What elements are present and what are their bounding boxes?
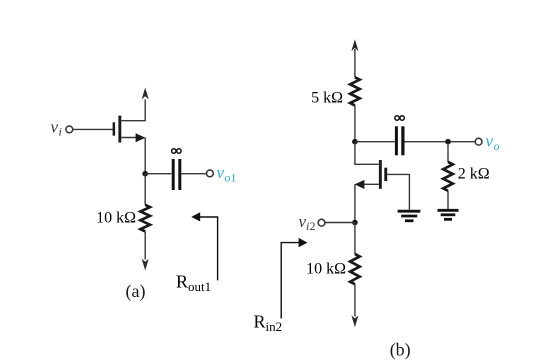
input terminal vi [66,126,73,133]
capacitor C2 [395,126,405,155]
wire source Q2 to node D [354,184,356,222]
svg-text:2: 2 [310,219,316,233]
label infinity C2 [395,116,405,120]
output terminal vo [475,138,482,145]
svg-text:(b): (b) [390,340,411,361]
wire gate Q2 to ground [387,174,409,209]
svg-text:v: v [51,118,59,137]
wire resistor R2 to node B [354,105,356,141]
transistor Q1 source arrow [136,133,146,142]
node B junction dot [352,139,358,145]
svg-text:2 kΩ: 2 kΩ [458,166,490,183]
wire capacitor C1 to output terminal [181,173,206,175]
svg-text:o: o [494,139,500,153]
wire node D to resistor R4 [354,223,356,255]
input terminal vi2 [318,219,325,226]
wire supply to resistor R2 [354,49,356,77]
wire gate Q1 [73,128,113,130]
node C junction dot [445,139,451,145]
svg-text:10 kΩ: 10 kΩ [96,210,136,227]
resistor R3 2 kOhm [443,162,453,191]
wire capacitor C2 to output terminal vo [405,141,476,143]
ground (under R3) [438,210,459,219]
resistor R4 10 kOhm [350,254,360,284]
label vo1 [217,163,237,185]
supply arrow up (b) [351,39,358,51]
resistor R1 10 kOhm [140,205,150,232]
svg-text:(a): (a) [126,281,146,302]
svg-text:10 kΩ: 10 kΩ [306,261,346,278]
wire node C to resistor R3 [447,142,449,162]
label Rin2 [254,312,283,335]
svg-text:out1: out1 [188,279,211,294]
transistor Q2 source lead wire [362,183,379,185]
transistor Q1 channel bar [118,116,121,143]
Rin2 pointer arrowhead [299,238,308,247]
node A junction dot [142,171,148,177]
label vi2 [299,212,316,233]
supply arrow down (a) [142,259,149,271]
label infinity C1 [172,149,181,153]
wire terminal vi2 to node D [325,222,355,224]
wire source Q1 to node A [144,138,146,174]
transistor Q2 gate bar [384,168,387,181]
svg-text:1: 1 [231,171,237,185]
svg-text:5 kΩ: 5 kΩ [311,90,343,107]
wire resistor R4 to supply arrow [354,284,356,316]
node D junction dot [352,220,358,226]
transistor Q2 channel bar [379,160,382,189]
output terminal vo1 [207,170,214,177]
label vo [486,132,500,154]
transistor Q2 source arrow [355,180,365,189]
label Rout1 [176,272,211,295]
wire resistor R3 to ground [447,191,449,210]
transistor Q1 source lead wire [121,137,138,139]
svg-text:i: i [59,125,62,139]
svg-text:in2: in2 [266,319,283,334]
svg-text:R: R [254,312,266,332]
wire resistor R1 to supply arrow [144,231,146,259]
Rout1 pointer arrowhead [191,212,200,221]
supply arrow up (a) [142,88,149,100]
wire node B to capacitor C2 [355,141,395,143]
svg-text:v: v [486,132,494,151]
svg-text:v: v [217,163,225,182]
label vi [51,118,62,139]
Rin2 pointer wire [281,243,299,319]
svg-text:R: R [176,272,188,292]
capacitor C1 [172,159,182,190]
Rout1 pointer wire [199,217,218,280]
transistor Q1 gate bar [113,122,116,135]
resistor R2 5 kOhm [350,77,360,105]
supply arrow down (b) [351,315,358,327]
wire node A to resistor R1 [144,174,146,205]
ground (gate Q2) [398,211,421,221]
transistor Q1 drain lead wire [121,100,145,121]
wire node A to capacitor C1 [145,173,171,175]
wire node B to drain Q2 [355,142,379,165]
